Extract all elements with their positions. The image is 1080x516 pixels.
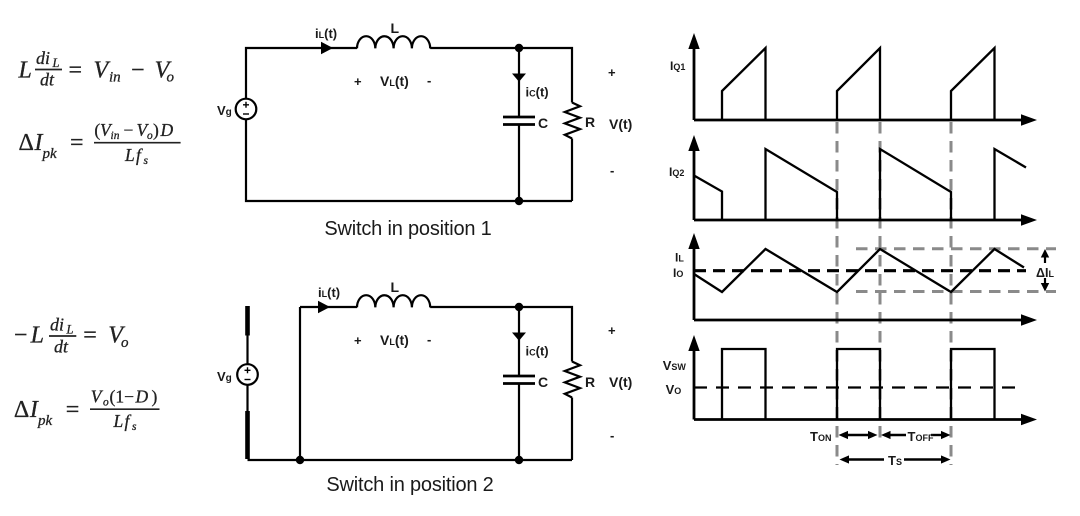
svg-text:o: o xyxy=(167,70,175,86)
svg-text:(1−: (1− xyxy=(110,387,135,407)
svg-text:L: L xyxy=(30,323,44,349)
svg-text:in: in xyxy=(111,130,120,142)
svg-text:dt: dt xyxy=(40,70,55,90)
svg-text:=: = xyxy=(69,58,83,84)
svg-text:V(t): V(t) xyxy=(609,374,632,390)
svg-text:pk: pk xyxy=(37,413,53,429)
svg-text:IO: IO xyxy=(673,266,683,280)
svg-text:−: − xyxy=(131,58,145,84)
svg-text:+: + xyxy=(354,333,362,348)
svg-text:=: = xyxy=(66,397,80,423)
svg-text:di: di xyxy=(36,48,50,68)
svg-text:o: o xyxy=(121,335,129,351)
svg-text:C: C xyxy=(538,374,548,390)
svg-text:-: - xyxy=(427,332,431,347)
svg-text:L: L xyxy=(124,145,135,165)
svg-text:L: L xyxy=(18,58,32,84)
svg-text:iL(t): iL(t) xyxy=(315,26,337,41)
svg-text:IL: IL xyxy=(675,251,684,265)
svg-text:D: D xyxy=(135,387,149,407)
svg-text:V(t): V(t) xyxy=(609,116,632,132)
svg-text:-: - xyxy=(610,163,614,178)
svg-text:VL(t): VL(t) xyxy=(380,332,409,348)
svg-text:o: o xyxy=(103,397,109,409)
svg-text:s: s xyxy=(144,155,149,167)
svg-text:iC(t): iC(t) xyxy=(526,85,549,100)
svg-text:=: = xyxy=(83,323,97,349)
svg-text:L: L xyxy=(113,411,124,431)
svg-text:): ) xyxy=(153,120,159,140)
svg-text:L: L xyxy=(66,323,74,337)
svg-text:IQ1: IQ1 xyxy=(670,59,685,73)
svg-text:pk: pk xyxy=(42,146,58,162)
svg-text:): ) xyxy=(152,387,158,407)
svg-text:L: L xyxy=(52,56,60,70)
svg-text:di: di xyxy=(50,315,64,335)
svg-text:D: D xyxy=(160,120,174,140)
svg-text:+: + xyxy=(608,323,616,338)
svg-text:L: L xyxy=(391,20,400,36)
svg-text:−: − xyxy=(14,323,28,349)
svg-text:in: in xyxy=(109,70,121,86)
svg-text:R: R xyxy=(585,114,595,130)
svg-text:−: − xyxy=(124,120,134,140)
svg-text:Δ: Δ xyxy=(19,130,34,156)
svg-text:=: = xyxy=(70,130,84,156)
svg-text:Switch in position 2: Switch in position 2 xyxy=(326,474,493,496)
svg-text:iL(t): iL(t) xyxy=(318,285,340,300)
svg-text:IQ2: IQ2 xyxy=(669,165,684,179)
svg-text:+: + xyxy=(354,74,362,89)
svg-text:V: V xyxy=(94,58,111,84)
svg-text:dt: dt xyxy=(54,337,69,357)
svg-text:iC(t): iC(t) xyxy=(526,344,549,359)
svg-text:+: + xyxy=(608,65,616,80)
svg-text:Δ: Δ xyxy=(14,397,29,423)
svg-text:-: - xyxy=(610,428,614,443)
svg-text:-: - xyxy=(427,73,431,88)
svg-text:R: R xyxy=(585,374,595,390)
svg-text:Switch in position 1: Switch in position 1 xyxy=(324,218,491,240)
svg-text:s: s xyxy=(132,421,137,433)
svg-text:ΔIL: ΔIL xyxy=(1036,266,1054,280)
svg-text:VL(t): VL(t) xyxy=(380,73,409,89)
svg-text:L: L xyxy=(391,279,400,295)
svg-text:C: C xyxy=(538,115,548,131)
